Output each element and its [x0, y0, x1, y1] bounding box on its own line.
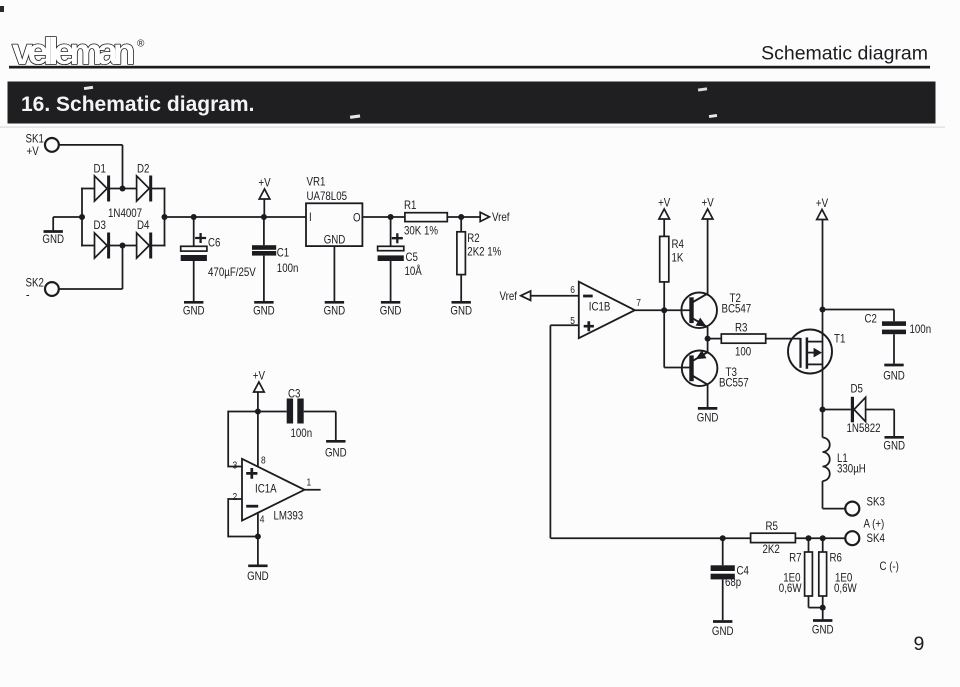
capacitor C2 100n	[882, 321, 906, 326]
wire C3 ground drop	[335, 412, 337, 441]
header rule	[9, 66, 930, 69]
junction C1 tap	[261, 214, 267, 220]
svg-text:+V: +V	[27, 144, 39, 158]
svg-text:I: I	[309, 210, 312, 224]
svg-text:GND: GND	[883, 369, 905, 383]
ground of C5	[381, 301, 400, 304]
svg-text:100n: 100n	[291, 426, 313, 440]
wire T2 collector to +V	[707, 219, 709, 294]
resistor R6 1E0 0,6W	[819, 552, 827, 596]
voltage regulator VR1 UA78L05	[306, 203, 362, 246]
svg-text:GND: GND	[712, 624, 734, 638]
svg-text:0,6W: 0,6W	[834, 581, 857, 595]
faint line under banner	[0, 127, 945, 128]
svg-text:T1: T1	[834, 332, 846, 346]
diode D2 1N4007	[137, 176, 150, 201]
wire bridge to GND	[53, 216, 82, 218]
wire pin 3 horizontal	[228, 466, 258, 468]
svg-text:GND: GND	[325, 446, 347, 460]
svg-text:100n: 100n	[277, 261, 299, 275]
svg-text:1N4007: 1N4007	[108, 206, 142, 220]
wire T3 emitter up	[707, 339, 709, 353]
svg-text:R5: R5	[766, 519, 779, 533]
wire to C6	[193, 217, 195, 246]
svg-text:D2: D2	[137, 162, 150, 176]
svg-text:0,6W: 0,6W	[779, 581, 802, 595]
node Vref input arrow	[521, 291, 531, 300]
wire pin 1 output of IC1A	[305, 489, 321, 491]
junction R7 tap	[806, 535, 812, 541]
transistor T1 N-MOSFET	[788, 330, 832, 374]
svg-text:470µF/25V: 470µF/25V	[208, 265, 256, 279]
connector SK3	[845, 502, 859, 516]
junction C4 tap	[720, 535, 726, 541]
wire pin 2 vertical	[227, 498, 229, 537]
svg-text:R4: R4	[672, 237, 685, 251]
svg-text:GND: GND	[324, 304, 346, 318]
svg-text:9: 9	[914, 633, 925, 655]
svg-text:D3: D3	[94, 218, 107, 232]
capacitor C4 68p	[711, 565, 735, 571]
wire C4 to ground	[722, 579, 724, 620]
svg-text:BC557: BC557	[719, 376, 749, 390]
capacitor C6 470uF/25V electrolytic	[181, 246, 207, 251]
wire bridge top rail	[81, 188, 166, 190]
svg-text:1: 1	[307, 477, 312, 489]
wire SK2 to bridge	[59, 288, 123, 290]
transistor T2 BC547 NPN	[681, 293, 717, 329]
transistor T3 BC557 PNP	[682, 351, 718, 387]
svg-text:1K: 1K	[672, 251, 684, 265]
svg-text:GND: GND	[247, 569, 269, 583]
svg-text:GND: GND	[812, 623, 834, 637]
svg-text:O: O	[353, 211, 361, 225]
body arrow of T1	[814, 348, 822, 358]
ground of C3	[326, 440, 345, 443]
wire pin 8 of IC1A	[257, 412, 259, 467]
svg-text:C5: C5	[406, 250, 419, 264]
wire bridge bottom rail	[81, 245, 166, 247]
ground of C6	[184, 301, 203, 304]
svg-text:D1: D1	[94, 162, 107, 176]
wire Vref to pin 6 of IC1B	[531, 295, 579, 297]
svg-text:16. Schematic diagram.: 16. Schematic diagram.	[21, 93, 254, 116]
junction T1 drain / C2 node	[820, 307, 826, 313]
svg-text:GND: GND	[380, 304, 402, 318]
inductor L1 330uH	[823, 438, 830, 482]
wire to C2	[823, 309, 895, 311]
junction bridge left mid node	[79, 214, 85, 220]
wire to L1	[822, 410, 824, 438]
wire D5 anode	[866, 409, 895, 411]
wire to D5 cathode	[823, 409, 851, 411]
svg-text:6: 6	[570, 284, 575, 296]
wire pin 4 to ground	[257, 513, 259, 565]
wire T3 collector to ground	[707, 384, 709, 407]
wire SK1 to bridge	[59, 144, 123, 146]
plus sign of C5	[392, 233, 403, 243]
scan speck at left edge	[0, 6, 4, 12]
ground of T3	[698, 407, 717, 410]
svg-text:A (+): A (+)	[864, 517, 885, 531]
svg-text:-: -	[26, 287, 30, 302]
resistor R4 1K	[660, 236, 669, 282]
diode D5 1N5822	[851, 397, 854, 423]
wire pin 2 bottom link	[228, 536, 258, 538]
svg-text:GND: GND	[450, 304, 472, 318]
svg-text:LM393: LM393	[274, 509, 304, 523]
connector SK4	[845, 531, 859, 545]
svg-text:Vref: Vref	[500, 289, 518, 303]
wire C6 to ground	[193, 261, 195, 301]
wire feedback to R5	[550, 537, 750, 539]
wire to SK3 terminal	[823, 508, 846, 510]
wire L1 to SK3	[822, 481, 824, 509]
wire to C1	[263, 217, 265, 245]
wire to C3	[258, 411, 287, 413]
ground of C1	[254, 301, 273, 304]
svg-text:C2: C2	[865, 312, 878, 326]
svg-text:GND: GND	[883, 439, 905, 453]
banner scan specks	[84, 86, 93, 90]
junction R2 tap	[458, 214, 464, 220]
svg-text:R7: R7	[789, 551, 802, 565]
wire IC1B output to T2 base	[635, 309, 690, 311]
op-amp IC1A LM393	[242, 459, 305, 521]
svg-text:1N5822: 1N5822	[847, 421, 881, 435]
svg-text:®: ®	[137, 39, 145, 50]
wire bridge right side	[164, 188, 166, 247]
wire R7/R6 join	[809, 607, 823, 609]
resistor R3 100	[721, 334, 765, 343]
diode D4 1N4007	[137, 233, 150, 258]
emitter arrow of T3	[696, 350, 707, 359]
emitter arrow of T2	[696, 318, 707, 327]
wire C2 drop	[893, 310, 895, 322]
svg-text:GND: GND	[324, 233, 346, 247]
resistor R5 2K2	[751, 533, 796, 542]
junction C5 tap	[388, 214, 394, 220]
svg-text:SK3: SK3	[867, 495, 886, 509]
svg-text:IC1B: IC1B	[589, 300, 611, 314]
diode D3 1N4007	[95, 233, 108, 258]
junction IC1A supply node	[255, 409, 261, 415]
junction D1-D2 node	[120, 186, 126, 192]
svg-text:100n: 100n	[910, 322, 932, 336]
svg-text:GND: GND	[253, 304, 275, 318]
wire to ground	[822, 608, 824, 620]
junction R6 tap	[820, 535, 826, 541]
wire GND drop	[52, 217, 54, 231]
svg-text:D4: D4	[137, 218, 150, 232]
wire VR1 output	[362, 216, 405, 218]
junction R7/R6 bottoms	[820, 605, 826, 611]
resistor R1 30K 1%	[405, 213, 447, 222]
svg-text:Vref: Vref	[492, 210, 510, 224]
svg-text:3: 3	[233, 460, 238, 472]
svg-text:100: 100	[735, 345, 751, 359]
wire down to D1/D2 node	[122, 145, 124, 190]
wire +V to IC1A node	[257, 392, 259, 412]
wire output to T3 base vertical	[663, 310, 665, 367]
svg-text:8: 8	[261, 455, 266, 467]
ground of R2	[452, 301, 471, 304]
node Vref output arrow	[480, 212, 489, 221]
ground of IC1A	[248, 564, 267, 567]
wire T2 emitter down	[707, 327, 709, 339]
junction D5 / L1 node	[820, 407, 826, 413]
svg-text:D5: D5	[851, 382, 864, 396]
svg-text:VR1: VR1	[307, 175, 326, 189]
svg-text:R6: R6	[830, 551, 843, 565]
svg-text:GND: GND	[697, 411, 719, 425]
svg-text:C (-): C (-)	[880, 559, 899, 573]
svg-text:330µH: 330µH	[837, 462, 866, 476]
junction output node	[661, 307, 667, 313]
wire T1 drain-source vertical	[822, 310, 824, 410]
plus sign of IC1A	[246, 468, 257, 479]
svg-text:GND: GND	[183, 304, 205, 318]
capacitor C5 10u electrolytic	[378, 246, 404, 250]
junction T2/T3 emitters	[705, 336, 711, 342]
svg-text:R3: R3	[735, 321, 748, 335]
ground of VR1	[325, 301, 344, 304]
svg-text:IC1A: IC1A	[255, 482, 277, 496]
wire R4 top	[663, 219, 665, 236]
wire to C5	[390, 217, 392, 246]
wire up to D3/D4 node	[122, 245, 124, 289]
ground of R6/R7	[813, 619, 832, 622]
svg-text:SK4: SK4	[867, 531, 886, 545]
wire to R2	[460, 217, 462, 232]
wire to C4	[722, 538, 724, 565]
wire pin 5 feedback vertical	[549, 325, 551, 538]
section banner	[8, 82, 936, 124]
wire C3 to ground corner	[304, 411, 336, 413]
wire R7 bottom	[808, 596, 810, 608]
op-amp IC1B LM393	[579, 282, 635, 339]
junction C6 tap	[191, 214, 197, 220]
svg-text:Schematic diagram: Schematic diagram	[761, 43, 928, 65]
wire C1 to ground	[263, 256, 265, 301]
wire bridge left side	[81, 188, 83, 247]
wire pin 3 vertical	[227, 411, 229, 468]
wire D5 to ground	[893, 410, 895, 437]
connector SK1	[45, 138, 59, 152]
wire C5 to ground	[390, 261, 392, 301]
minus sign of IC1B	[583, 295, 593, 298]
wire R6 bottom	[822, 596, 824, 608]
svg-text:R1: R1	[404, 198, 417, 212]
wire C2 to ground	[893, 334, 895, 364]
svg-text:C3: C3	[288, 387, 301, 401]
wire R4 bottom	[663, 282, 665, 310]
junction bridge right mid node	[162, 214, 168, 220]
ground of D5	[885, 436, 904, 439]
junction pin2/pin4 node	[255, 534, 261, 540]
svg-text:2K2: 2K2	[763, 542, 781, 556]
plus sign of IC1B	[584, 321, 594, 331]
wire pin 5 of IC1B	[550, 324, 578, 326]
wire R1 to Vref arrow	[447, 216, 480, 218]
wire to R7	[808, 538, 810, 552]
wire VR1 GND pin to ground	[333, 246, 335, 301]
wire R2 to ground	[460, 275, 462, 301]
wire pin 2 horizontal	[228, 498, 242, 500]
wire +V to rail	[263, 199, 265, 217]
resistor R2 2K2 1%	[457, 232, 466, 275]
minus sign of IC1A	[246, 505, 258, 508]
svg-text:7: 7	[636, 297, 641, 309]
svg-text:GND: GND	[42, 232, 64, 246]
wire pin 3 top link	[228, 411, 258, 413]
wire +V to T1 drain	[822, 219, 824, 310]
wire bridge output to VR1 input	[165, 216, 307, 218]
svg-text:R2: R2	[467, 231, 480, 245]
svg-text:4: 4	[260, 514, 265, 526]
ground at bridge AC input	[44, 230, 63, 233]
connector SK2	[45, 282, 59, 296]
plus sign of C6	[195, 233, 206, 243]
resistor R7 1E0 0,6W	[805, 552, 813, 596]
svg-text:BC547: BC547	[722, 302, 752, 316]
svg-text:UA78L05: UA78L05	[307, 189, 348, 203]
diode D1 1N4007	[95, 176, 108, 201]
capacitor C3 100n	[287, 399, 293, 424]
svg-text:68p: 68p	[725, 575, 741, 589]
junction D3-D4 node	[120, 243, 126, 249]
svg-text:2K2 1%: 2K2 1%	[467, 245, 501, 259]
wire to R6	[822, 538, 824, 552]
svg-text:C6: C6	[208, 236, 221, 250]
wire R5 to SK4	[795, 537, 845, 539]
wire R3 to T1 gate	[766, 338, 801, 340]
wire to T3 base	[664, 367, 690, 369]
svg-text:10Å: 10Å	[405, 263, 422, 278]
wire to R3	[708, 338, 722, 340]
svg-text:2: 2	[233, 491, 238, 503]
svg-text:C1: C1	[277, 246, 290, 260]
ground of C2	[884, 364, 903, 367]
svg-text:30K 1%: 30K 1%	[404, 224, 438, 238]
ground of C4	[713, 620, 732, 623]
capacitor C1 100n	[252, 245, 276, 250]
